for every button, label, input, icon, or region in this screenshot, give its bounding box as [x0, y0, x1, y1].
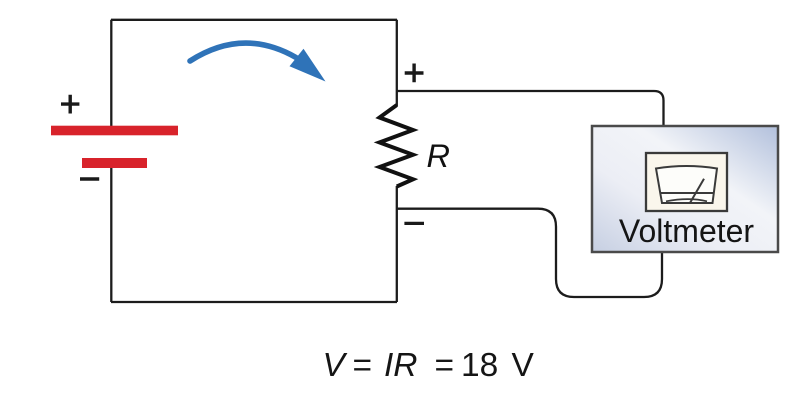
svg-text:=: =: [353, 347, 373, 384]
battery + label: [61, 95, 79, 114]
svg-text:18: 18: [461, 347, 498, 384]
battery positive plate (long red bar): [51, 126, 178, 136]
wire: bottom horizontal of main loop: [111, 301, 397, 303]
svg-text:V: V: [323, 347, 348, 384]
svg-text:V: V: [512, 347, 535, 384]
wire: right vertical, below resistor to bottom: [396, 186, 398, 302]
wire: right vertical, top section above resistor: [396, 20, 398, 106]
resistor R zigzag: [380, 105, 414, 187]
svg-text:=: =: [435, 347, 455, 384]
+ label at resistor top terminal: [405, 64, 424, 83]
wire: left vertical, battery negative plate to bottom: [110, 167, 112, 302]
battery - label: [80, 177, 99, 181]
wire: left vertical, top section to battery positive plate: [110, 20, 112, 127]
- label at resistor bottom terminal: [404, 222, 424, 225]
wire: resistor + terminal to voltmeter top: [397, 91, 664, 127]
svg-text:IR: IR: [384, 347, 418, 384]
svg-text:R: R: [427, 138, 450, 174]
wire: resistor - terminal to voltmeter bottom (S-bend): [397, 209, 662, 297]
svg-text:Voltmeter: Voltmeter: [619, 213, 755, 249]
battery negative plate (short red bar): [82, 158, 147, 168]
wire: top horizontal of main loop: [111, 19, 397, 21]
voltmeter box: [592, 126, 778, 252]
voltmeter meter icon: [646, 153, 727, 211]
current arrow (blue, curved): [190, 43, 326, 81]
